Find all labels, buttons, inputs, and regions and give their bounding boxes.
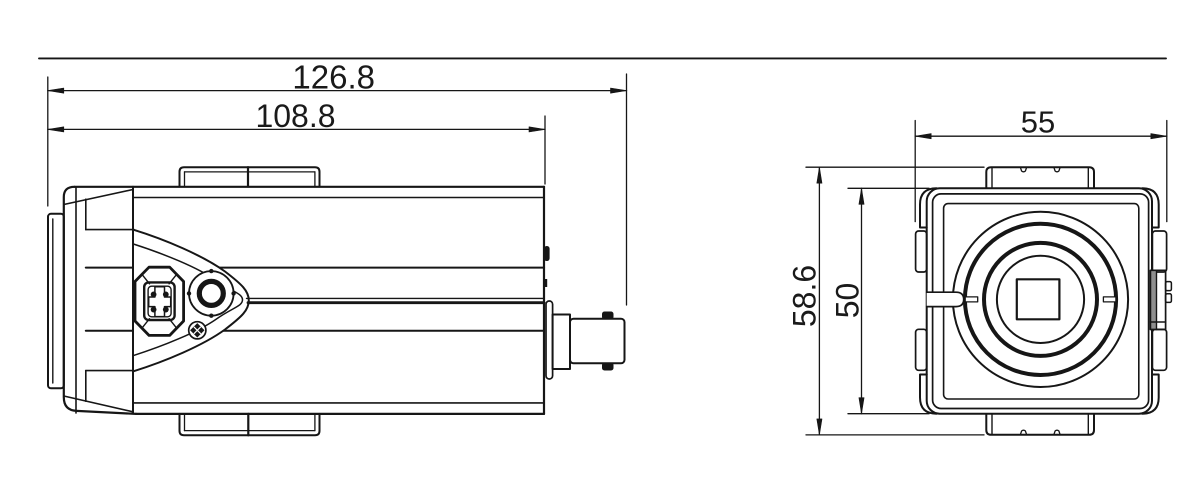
svg-text:126.8: 126.8 (292, 59, 375, 96)
side view lens barrel (48, 214, 64, 388)
4-pin connector corner facet TL (142, 274, 150, 284)
round connector nub top (209, 269, 213, 273)
side view top chamfer line (64, 190, 133, 205)
dimension 58.6 line (818, 167, 820, 435)
BNC lug top (602, 312, 614, 320)
4-pin connector inner frame (144, 282, 174, 320)
side view bottom tab (180, 414, 320, 435)
dimension 50 line (861, 188, 863, 413)
dimension 55 line (915, 135, 1167, 137)
extension line bottom of 50 (848, 413, 929, 415)
side view step line upper (86, 229, 134, 231)
front view bottom tab notch 2 (1054, 430, 1060, 435)
side view horizontal thick line y303 (248, 301, 544, 304)
front view body inner outline (944, 204, 1139, 399)
front view top tab inner left (991, 167, 993, 188)
4-pin connector inner frame 2 (148, 286, 171, 317)
dimension 126.8 left arrow (48, 88, 64, 93)
front view right connector knob 1 (1166, 282, 1172, 291)
front view side tab right lower (1152, 329, 1166, 370)
side view horizontal thin line y298 (247, 297, 545, 299)
svg-text:108.8: 108.8 (255, 98, 335, 134)
svg-text:55: 55 (1021, 105, 1055, 140)
front view top tab notch 2 (1054, 167, 1060, 172)
screw circle (189, 322, 206, 339)
extension line bottom of 58.6 (806, 434, 984, 436)
lens circle ring 3 (984, 243, 1097, 356)
side view front cap outline (64, 187, 136, 414)
front view side tab left upper (916, 231, 927, 272)
BNC lug bottom (602, 363, 614, 371)
round connector nub bottom (209, 314, 213, 318)
side view lens barrel inner line (52, 219, 54, 383)
svg-text:58.6: 58.6 (787, 265, 823, 327)
side view face outer contour (133, 230, 249, 372)
construction line top (39, 57, 1166, 59)
side view back edge (543, 187, 545, 414)
front view side tab right upper (1152, 231, 1166, 272)
side view top tab inner left vertical (184, 172, 186, 187)
front view right connector divider (1156, 270, 1158, 329)
side view cap second vertical upper (85, 199, 87, 229)
dimension 126.8 right arrow (611, 88, 627, 93)
4-pin connector corner facet BL (142, 319, 150, 329)
dimension 50 bottom arrow (859, 398, 864, 414)
4-pin connector pin 3 (151, 307, 157, 313)
4-pin connector pin 4 (163, 307, 169, 313)
screw diamond (190, 323, 204, 337)
front view corner bumper BL (920, 375, 937, 414)
side view body bottom inner line (133, 402, 544, 404)
side view cap second vertical lower (85, 371, 87, 402)
front view right connector gray strip (1150, 270, 1156, 329)
side view body top edge (75, 186, 545, 188)
dimension 55 right arrow (1151, 134, 1167, 139)
screw cross (194, 327, 200, 333)
front view right connector lower line (1150, 321, 1165, 323)
lens circle outer (953, 212, 1128, 387)
lens circle inner (997, 256, 1084, 343)
front view bottom tab notch 1 (1020, 430, 1026, 435)
extension line left of 126.8 (47, 77, 49, 206)
dimension 58.6 top arrow (817, 167, 822, 183)
side view face panel vertical edge (132, 187, 134, 414)
front view body outer (927, 188, 1152, 413)
4-pin connector plus shape (149, 287, 171, 317)
front view bottom tab inner left (991, 414, 993, 435)
side view band line upper (86, 267, 544, 269)
BNC barrel (570, 319, 625, 364)
4-pin connector pin 1 (151, 292, 157, 298)
front view body middle outline (933, 194, 1149, 409)
front view corner bumper BR (1142, 375, 1159, 414)
front view top tab (986, 167, 1094, 188)
side view top tab divider (247, 167, 249, 186)
side view cap vertical line (75, 188, 77, 414)
round connector outer circle (189, 271, 234, 316)
side view top tab inner top line (185, 171, 315, 173)
front view top tab notch 1 (1020, 167, 1026, 172)
side view body top inner line (133, 197, 544, 199)
front view bottom tab inner right (1087, 414, 1089, 435)
extension line right of 108.8 (544, 116, 546, 184)
side view step line lower (86, 370, 134, 372)
BNC collar (546, 301, 553, 379)
4-pin connector pin 2 (163, 292, 169, 298)
dimension 58.6 bottom arrow (817, 419, 822, 435)
dimension 108.8 left arrow (48, 127, 64, 132)
dimension 50 top arrow (859, 188, 864, 204)
round connector nub left (187, 291, 191, 295)
side view bottom tab divider (247, 414, 249, 435)
dimension 126.8 line (48, 90, 627, 92)
lens seam tick right (1103, 297, 1116, 302)
extension line right of 55 (1166, 121, 1168, 222)
front view corner bumper TL (920, 188, 937, 227)
front view bottom tab (986, 414, 1094, 435)
extension line top of 50 (848, 187, 929, 189)
side view bottom tab inner right vertical (314, 414, 316, 431)
4-pin connector octagon (135, 267, 184, 335)
round connector ring (199, 281, 223, 305)
back panel small mark (544, 279, 547, 287)
back panel nub (544, 246, 550, 261)
extension line right of 126.8 (626, 74, 628, 305)
dimension 108.8 line (48, 128, 545, 130)
svg-text:50: 50 (830, 283, 866, 319)
round connector nub right (231, 291, 235, 295)
lens seam tick left (965, 297, 978, 302)
side view bottom chamfer line (64, 396, 133, 412)
front view left slot (927, 292, 964, 306)
lens circle ring 2 (965, 224, 1116, 375)
side view face inner contour (133, 244, 243, 356)
front view top tab inner right (1087, 167, 1089, 188)
dimension 108.8 right arrow (529, 127, 545, 132)
front view side tab left lower (916, 329, 927, 370)
side view bottom tab inner bottom line (185, 430, 315, 432)
front view right connector knob 2 (1166, 294, 1172, 303)
front view right connector block (1150, 270, 1165, 329)
front view corner bumper TR (1142, 188, 1159, 227)
dimension 55 left arrow (915, 134, 931, 139)
extension line top of 58.6 (806, 166, 984, 168)
extension line left of 55 (914, 121, 916, 222)
side view bottom tab inner left vertical (184, 414, 186, 431)
BNC base block (553, 315, 570, 370)
side view band line lower (86, 330, 544, 332)
4-pin connector corner facet TR (169, 274, 177, 284)
side view top tab (180, 167, 320, 186)
4-pin connector corner facet BR (169, 319, 177, 329)
side view top tab inner right vertical (314, 172, 316, 187)
sensor square (1017, 279, 1060, 319)
side view body bottom edge (136, 413, 544, 415)
